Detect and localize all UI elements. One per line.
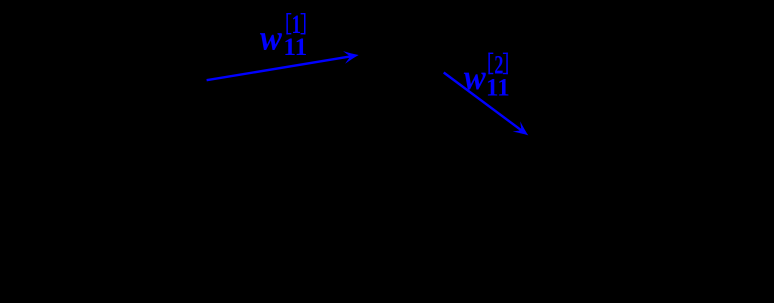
- arrow w11[1] shaft: [207, 56, 351, 80]
- arrow w11[1] head: [343, 49, 360, 64]
- arrow w11[2] head: [513, 121, 533, 140]
- arrow w11[2] shaft: [444, 73, 522, 131]
- svg-text:11: 11: [283, 32, 307, 61]
- svg-text:11: 11: [486, 72, 510, 101]
- svg-text:w: w: [260, 17, 283, 57]
- svg-text:w: w: [464, 57, 487, 97]
- label w11^[2] : superscript bracket [: [488, 53, 493, 75]
- label w11^[1] : superscript bracket [: [286, 13, 291, 34]
- label w11^[1] : superscript bracket ]: [301, 13, 306, 34]
- label w11^[2] : superscript bracket ]: [503, 53, 508, 75]
